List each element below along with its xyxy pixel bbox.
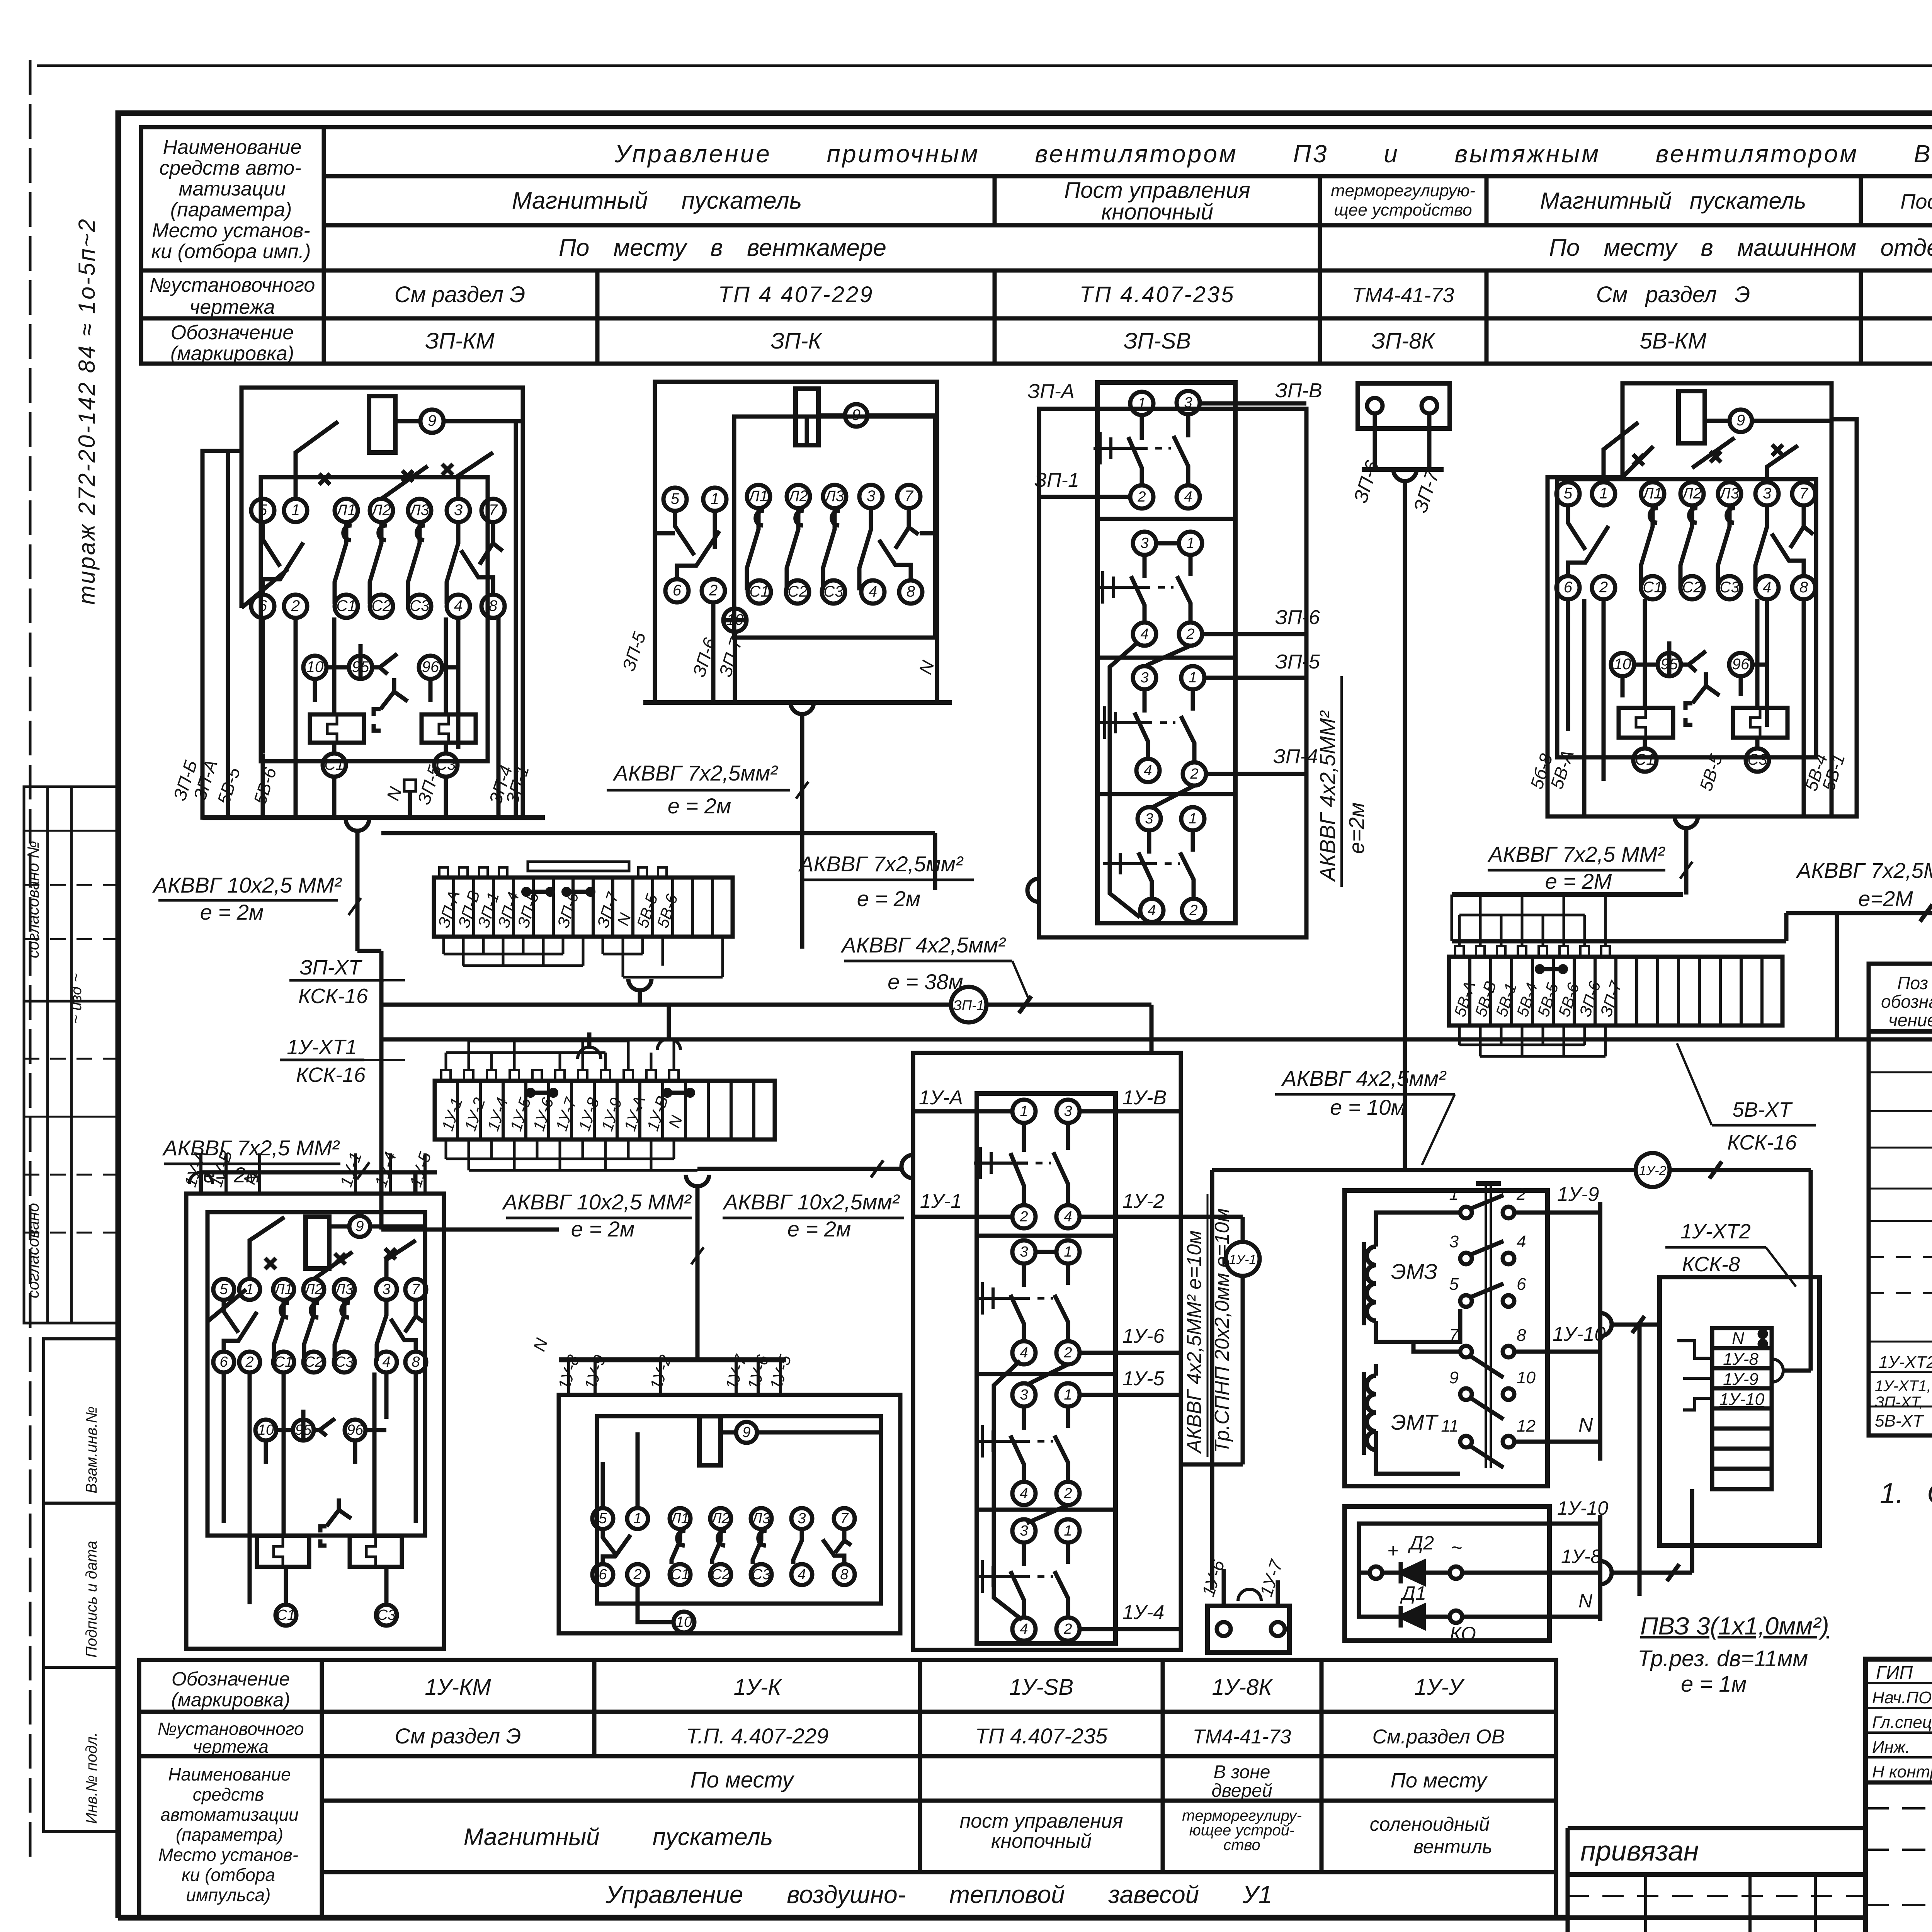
svg-text:1: 1 [1189,670,1197,686]
push-button post ЗП-SВ [1027,383,1306,937]
svg-text:1У-К: 1У-К [734,1675,782,1700]
svg-text:3: 3 [1020,1523,1028,1539]
svg-text:Тр.рез. dв=11мм: Тр.рез. dв=11мм [1638,1646,1808,1671]
auxiliary coil boxes [310,714,364,743]
diode Д1 [1401,1606,1424,1628]
svg-text:5: 5 [671,490,680,507]
svg-text:е = 2м: е = 2м [200,900,264,924]
svg-text:АКВВГ 7х2,5мм²: АКВВГ 7х2,5мм² [798,852,964,876]
jumper dots [1760,1331,1766,1337]
svg-text:АКВВГ 7х2,5мм²: АКВВГ 7х2,5мм² [612,761,778,785]
svg-text:3: 3 [1064,1103,1072,1119]
svg-text:обозна-: обозна- [1881,992,1932,1012]
label ЗП-ХТ/КСК-16 [298,956,368,1008]
svg-text:1У-А: 1У-А [919,1087,963,1109]
svg-text:1У-ХТ2: 1У-ХТ2 [1680,1220,1751,1243]
svg-text:1У-10: 1У-10 [1553,1323,1605,1345]
svg-text:N: N [1732,1329,1744,1348]
svg-text:С1: С1 [277,1607,296,1623]
svg-text:ТМ4-41-73: ТМ4-41-73 [1352,284,1454,307]
svg-text:3: 3 [798,1510,806,1527]
cable gland bump ЗП-КМ [346,819,369,831]
svg-text:3: 3 [1020,1244,1028,1260]
svg-text:8: 8 [1517,1326,1526,1345]
svg-text:11: 11 [1441,1417,1459,1435]
svg-text:С3: С3 [823,583,843,600]
svg-text:См раздел Э: См раздел Э [395,1724,521,1748]
svg-text:1: 1 [1599,485,1608,502]
svg-text:7: 7 [1449,1326,1459,1345]
svg-text:С1: С1 [274,1354,293,1370]
svg-text:АКВВГ 4х2,5ММ² е=10м: АКВВГ 4х2,5ММ² е=10м [1183,1230,1206,1454]
svg-text:5: 5 [1449,1275,1459,1294]
svg-text:1У-SВ: 1У-SВ [1009,1675,1073,1700]
section 3 [1133,666,1156,689]
svg-text:2: 2 [1599,579,1608,596]
interlock circles [303,656,327,679]
svg-text:АКВВГ 7х2,5ММ²: АКВВГ 7х2,5ММ² [1796,858,1932,883]
svg-text:КСК-8: КСК-8 [1682,1253,1740,1276]
svg-text:1У-ХТ2: 1У-ХТ2 [1879,1353,1932,1372]
label 1У-ХТ2/КСК-8 [1680,1220,1751,1276]
svg-text:терморегулирую-: терморегулирую- [1331,181,1475,200]
wire ЗП-1 run [382,1003,1151,1007]
material list table [1869,964,1932,1658]
svg-text:1У-9: 1У-9 [1557,1183,1599,1206]
wires right of 1У-SВ [1181,1170,1261,1601]
svg-text:КСК-16: КСК-16 [1727,1131,1797,1154]
wires below strip [1459,1026,1605,1056]
svg-text:2: 2 [1190,766,1198,782]
svg-text:тираж 272-20-142 84 ≈ 1о-5п~2: тираж 272-20-142 84 ≈ 1о-5п~2 [74,218,100,605]
bottom schedule table У1 [139,1660,1556,1918]
svg-text:соленоидный: соленоидный [1370,1813,1490,1835]
wires to bottom edge [228,421,516,818]
svg-text:4: 4 [1020,1345,1028,1361]
svg-text:3: 3 [1449,1232,1459,1251]
wires below strip [444,937,723,977]
svg-text:По месту в венткамере: По месту в венткамере [559,235,886,261]
magnetic starter 5В-КМ [1548,383,1857,816]
long feeder wires [381,905,1932,1053]
svg-text:7: 7 [905,488,914,505]
solenoid valve block ЭМЗ/ЭМТ [1345,1184,1660,1486]
svg-text:Л1: Л1 [273,1281,293,1298]
svg-text:10: 10 [1614,656,1631,673]
svg-text:чение: чение [1888,1010,1932,1030]
svg-text:матизации: матизации [179,178,286,200]
svg-text:е = 2м: е = 2м [857,886,921,911]
crossovers [994,1361,1068,1620]
svg-text:1У-2: 1У-2 [1639,1163,1667,1178]
svg-text:9: 9 [355,1218,364,1235]
svg-text:С1: С1 [1635,751,1655,768]
svg-text:96: 96 [1732,656,1750,673]
svg-text:привязан: привязан [1580,1836,1699,1867]
svg-text:1: 1 [711,490,719,507]
svg-text:2: 2 [245,1354,253,1370]
svg-text:е=2м: е=2м [1344,803,1369,854]
svg-text:1: 1 [1020,1103,1028,1119]
svg-text:95: 95 [295,1422,312,1438]
svg-text:С2: С2 [1682,579,1702,596]
svg-text:95: 95 [1661,656,1678,673]
svg-text:С2: С2 [787,583,807,600]
cable label АКВВГ 4х2,5 е=10м [1281,1066,1447,1119]
svg-text:3: 3 [1145,811,1153,827]
svg-text:Л2: Л2 [787,488,808,505]
wire drop to 1У-SВ [1150,1005,1154,1053]
node ЗП-1 [951,987,986,1022]
svg-text:С3: С3 [752,1566,771,1583]
wire 1У-2 run [1212,1153,1811,1371]
svg-text:1: 1 [245,1281,253,1298]
svg-text:1У-2: 1У-2 [1122,1190,1164,1213]
svg-text:4: 4 [1517,1232,1526,1251]
svg-text:2: 2 [1516,1185,1526,1204]
svg-text:1У-У: 1У-У [1414,1675,1465,1700]
svg-text:вентиль: вентиль [1413,1836,1492,1857]
connection box 1У-ХТ2 КСК-8 [1660,1277,1820,1546]
cable label АКВВГ 7х2,5 (ЗП-SВ) [798,852,964,911]
svg-text:По месту в машинном отделени: По месту в машинном отделении [1549,235,1932,261]
svg-text:8: 8 [1799,579,1808,596]
svg-text:3: 3 [382,1281,390,1298]
svg-text:4: 4 [1148,902,1156,918]
svg-text:1. Общие примечания см А-1: 1. Общие примечания см А-10 [1880,1477,1932,1509]
svg-text:1У-1: 1У-1 [920,1190,962,1213]
svg-text:ЗП-КМ: ЗП-КМ [425,328,495,354]
svg-text:Магнитный пускатель: Магнитный пускатель [464,1824,773,1850]
svg-text:е = 1м: е = 1м [1681,1672,1747,1697]
svg-text:N: N [1578,1414,1593,1436]
svg-text:Место установ-: Место установ- [158,1845,298,1865]
svg-text:Гл.спец.: Гл.спец. [1872,1713,1932,1732]
exit wires [1039,403,1306,774]
page thin trim line top [37,65,1932,67]
wires from 1У-ХТ1 to 1У-КМ [189,1172,437,1194]
cable from ЗП-КМ down [346,819,935,1230]
svg-text:См.раздел ОВ: См.раздел ОВ [1372,1726,1505,1748]
svg-text:4: 4 [869,583,877,600]
terminal box 5В-ХТ КСК-16 [1449,895,1786,1056]
svg-text:1: 1 [1064,1523,1072,1539]
cable label АКВВГ 7х2,5 (5В-КМ) [1487,842,1665,893]
svg-text:7: 7 [840,1510,849,1527]
svg-text:1: 1 [1064,1387,1072,1403]
svg-text:С3: С3 [410,597,429,614]
svg-text:5В-КМ: 5В-КМ [1640,328,1707,354]
svg-text:По месту: По месту [690,1767,795,1793]
svg-text:ЗП-ХТ,: ЗП-ХТ, [1875,1394,1923,1411]
svg-text:4: 4 [1020,1621,1028,1637]
svg-text:3: 3 [1763,485,1771,502]
svg-text:2: 2 [709,582,718,599]
svg-text:Л1: Л1 [335,502,356,519]
svg-text:3: 3 [1184,395,1192,411]
crossover wires [1110,642,1194,917]
mech link [1485,1184,1487,1468]
svg-text:4: 4 [1064,1209,1072,1225]
svg-text:1У-ХТ1,: 1У-ХТ1, [1875,1378,1931,1395]
svg-text:3: 3 [1020,1387,1028,1403]
svg-text:Л1: Л1 [748,488,768,505]
svg-text:ГИП: ГИП [1876,1663,1913,1683]
svg-text:№установочного: №установочного [157,1719,304,1739]
N marker [404,780,416,791]
svg-text:Л3: Л3 [334,1281,353,1298]
svg-text:С2: С2 [711,1566,730,1583]
svg-text:(маркировка): (маркировка) [170,342,294,365]
left margin inventory stamp [44,1339,118,1832]
svg-text:3: 3 [454,502,463,519]
svg-text:1: 1 [1189,811,1197,827]
svg-text:АКВВГ 4х2,5мм²: АКВВГ 4х2,5мм² [840,933,1006,957]
svg-text:кнопочный: кнопочный [1101,199,1213,224]
svg-text:2: 2 [633,1566,641,1583]
svg-text:9: 9 [1736,412,1745,429]
svg-text:импульса): импульса) [186,1885,271,1905]
svg-text:~: ~ [1451,1537,1462,1558]
left margin agreement table [24,787,118,1323]
svg-text:8: 8 [412,1354,420,1370]
svg-text:ЗП-К: ЗП-К [770,328,822,354]
svg-text:ТМ4-41-73: ТМ4-41-73 [1193,1726,1291,1748]
svg-text:е = 38м: е = 38м [888,969,963,994]
magnetic starter 1У-К [559,1360,900,1633]
svg-text:5: 5 [259,502,267,519]
svg-text:Инж.: Инж. [1872,1738,1910,1757]
svg-text:КСК-16: КСК-16 [296,1063,366,1087]
cable label АКВВГ 4х2,5 е=38м [840,933,1006,994]
bottom rail ЗП-К [643,702,952,949]
svg-text:1У-8: 1У-8 [1561,1546,1601,1567]
svg-text:Место установ-: Место установ- [152,219,310,242]
svg-text:5В-ХТ: 5В-ХТ [1732,1098,1793,1121]
svg-text:6: 6 [1564,579,1573,596]
svg-text:Пост управления кнопочный: Пост управления кнопочный [1900,190,1932,213]
privyazan strip [1568,1826,1866,1830]
left stubs [1677,1341,1712,1410]
page thin trim line left [29,60,32,1859]
svg-text:См раздел Э: См раздел Э [395,282,526,307]
svg-text:Т.П. 4.407-229: Т.П. 4.407-229 [686,1724,829,1748]
svg-text:ТП 4 407-229: ТП 4 407-229 [718,282,874,307]
svg-text:2: 2 [291,597,300,614]
diode block У1 [1345,1489,1692,1641]
svg-text:1: 1 [1064,1244,1072,1260]
top schedule table П3/В5 [141,127,1932,364]
svg-text:С1: С1 [671,1566,690,1583]
svg-text:5В-ХТ: 5В-ХТ [1875,1412,1924,1430]
svg-text:7: 7 [489,502,498,519]
svg-text:8: 8 [840,1566,848,1583]
svg-text:5: 5 [219,1281,228,1298]
svg-text:Подпись и дата: Подпись и дата [83,1541,100,1658]
svg-text:ЗП-SВ: ЗП-SВ [1124,328,1191,354]
svg-text:пост управления: пост управления [960,1810,1123,1832]
svg-text:КО: КО [1450,1623,1476,1645]
svg-text:9: 9 [1449,1368,1459,1387]
wire cable run to 5В-ХТ [381,1037,1932,1042]
svg-text:Инв.№ подл.: Инв.№ подл. [83,1732,100,1824]
svg-text:С3: С3 [1747,751,1767,768]
contacts [344,526,352,540]
svg-text:2: 2 [1063,1345,1072,1361]
svg-text:7: 7 [1799,485,1809,502]
terminal box 1У-ХТ1 КСК-16 [435,1006,913,1360]
svg-text:АКВВГ 10х2,5мм²: АКВВГ 10х2,5мм² [723,1190,900,1214]
svg-text:Д2: Д2 [1408,1532,1434,1554]
svg-text:4: 4 [454,597,463,614]
svg-text:6: 6 [1517,1275,1526,1294]
svg-text:1У-10: 1У-10 [1719,1390,1765,1409]
svg-text:ЗП-6: ЗП-6 [1275,606,1320,629]
svg-text:АКВВГ 10х2,5 ММ²: АКВВГ 10х2,5 ММ² [502,1190,692,1214]
svg-text:2: 2 [1063,1485,1072,1502]
svg-text:Л2: Л2 [1681,485,1702,502]
cable label АКВВГ 10х2,5 [152,873,342,924]
svg-text:5: 5 [599,1510,607,1527]
svg-text:8: 8 [906,583,915,600]
svg-text:ТП 4.407-235: ТП 4.407-235 [1080,282,1235,307]
svg-text:дверей: дверей [1211,1781,1272,1801]
magnetic starter 1У-КМ [186,1153,444,1649]
svg-text:6: 6 [599,1566,607,1583]
svg-text:4: 4 [382,1354,390,1370]
svg-text:См раздел Э: См раздел Э [1596,282,1750,307]
svg-text:Л1: Л1 [1642,485,1662,502]
svg-text:АКВВГ 7х2,5 ММ²: АКВВГ 7х2,5 ММ² [162,1136,340,1160]
svg-text:95: 95 [352,658,369,675]
svg-text:1У-КМ: 1У-КМ [425,1675,491,1700]
svg-text:1У-10: 1У-10 [1557,1497,1608,1519]
cable count slash [1019,996,1031,1013]
svg-text:чертежа: чертежа [193,1736,269,1757]
svg-text:По месту: По месту [1391,1769,1488,1792]
section 2 [1133,532,1156,555]
svg-text:1У-8: 1У-8 [1723,1350,1759,1369]
below strip [446,1139,674,1170]
svg-text:согласовано: согласовано [24,1203,42,1298]
box 1У-6/1У-7 [1198,1569,1298,1653]
wire 1У-2 horizontal [1212,1168,1811,1172]
wire riser 5В-SВ cable [1835,913,1839,1039]
top row terminal circles [251,499,505,522]
label 5В-ХТ/КСК-16 [1727,1098,1797,1154]
svg-text:С2: С2 [304,1354,323,1370]
title block [1568,1659,1932,1932]
svg-text:чертежа: чертежа [189,296,275,318]
cable label АКВВГ 7х2,5 (5В-SВ) [1796,858,1932,911]
svg-text:5: 5 [1564,485,1573,502]
svg-text:1У-В: 1У-В [1122,1087,1167,1109]
svg-text:Л2: Л2 [303,1281,323,1298]
svg-text:Обозначение: Обозначение [171,321,294,344]
exits [913,1111,1181,1629]
svg-text:Л3: Л3 [409,502,429,519]
contacts [1460,1207,1472,1218]
svg-text:10: 10 [258,1422,274,1438]
svg-text:Д1: Д1 [1400,1582,1426,1604]
svg-text:1: 1 [1449,1185,1459,1204]
svg-text:щее устройство: щее устройство [1334,201,1472,219]
cable label АКВВГ 7х2,5 (1У-КМ) [162,1136,340,1187]
svg-text:В зоне: В зоне [1214,1762,1270,1782]
thermostat ЗП-8К [1358,383,1450,1170]
svg-text:е = 2М: е = 2М [1545,869,1612,893]
svg-text:ЗП-5: ЗП-5 [1275,651,1320,673]
svg-text:4: 4 [1763,579,1771,596]
svg-text:10: 10 [1517,1368,1536,1387]
svg-text:С1: С1 [324,756,344,773]
svg-text:средств авто-: средств авто- [159,157,301,179]
svg-text:9: 9 [428,412,436,429]
svg-text:ТП 4.407-235: ТП 4.407-235 [975,1724,1108,1748]
svg-text:1: 1 [633,1510,641,1527]
internal wires [315,644,430,702]
svg-text:1У-4: 1У-4 [1122,1601,1164,1624]
svg-text:Управление приточным вентиля: Управление приточным вентилятором П3 и в… [614,140,1932,168]
svg-text:Л3: Л3 [824,488,844,505]
wire ЗП-КМ to ЗП-ХТ [357,831,559,1230]
svg-text:1У-5: 1У-5 [1122,1367,1165,1390]
svg-text:Обозначение: Обозначение [172,1668,290,1690]
svg-text:6: 6 [219,1354,228,1370]
svg-text:8: 8 [489,597,498,614]
cable labels АКВВГ 10х2,5 (1У-К) [502,1190,692,1241]
label 1У-ХТ1/КСК-16 [287,1036,366,1087]
svg-text:9: 9 [742,1424,750,1440]
svg-text:ЗП-8К: ЗП-8К [1371,328,1435,354]
section 4 [1012,1519,1036,1543]
svg-text:1: 1 [1138,395,1146,412]
section 1 [1130,392,1153,415]
svg-text:ЗП-1: ЗП-1 [1034,469,1079,492]
svg-text:2: 2 [1189,902,1197,918]
svg-text:3: 3 [867,488,875,505]
svg-text:С3: С3 [335,1354,354,1370]
svg-text:Магнитный пускатель: Магнитный пускатель [512,187,802,214]
svg-text:№установочного: №установочного [150,274,315,296]
svg-text:6: 6 [673,582,682,599]
svg-text:АКВВГ 4х2,5мм²: АКВВГ 4х2,5мм² [1281,1066,1447,1090]
svg-text:ЗП-1: ЗП-1 [953,997,984,1013]
svg-text:1: 1 [291,502,300,519]
terminal box ЗП-ХТ КСК-16 [434,862,733,1005]
svg-text:ки (отбора имп.): ки (отбора имп.) [151,240,311,263]
svg-text:(параметра): (параметра) [170,199,292,221]
svg-text:С1: С1 [1643,579,1662,596]
svg-text:Поз: Поз [1897,973,1928,993]
svg-text:ЗП-В: ЗП-В [1275,379,1322,402]
svg-text:10: 10 [676,1614,692,1630]
svg-text:ство: ство [1223,1837,1260,1854]
section 3 [1012,1383,1036,1406]
svg-text:ЗП-А: ЗП-А [1027,380,1075,403]
wire label ПВЗ [1638,1612,1829,1697]
svg-text:10: 10 [726,611,744,628]
svg-text:С1: С1 [749,583,769,600]
svg-text:ЗП-ХТ: ЗП-ХТ [299,956,362,979]
magnetic starter ЗП-КМ [202,388,545,818]
svg-text:3: 3 [1140,670,1148,686]
left margin vertical text [68,218,100,1024]
svg-text:е = 2м: е = 2м [571,1217,635,1241]
diode Д2 [1401,1562,1424,1583]
svg-text:согласовано №: согласовано № [24,841,42,958]
svg-text:С1: С1 [336,597,356,614]
